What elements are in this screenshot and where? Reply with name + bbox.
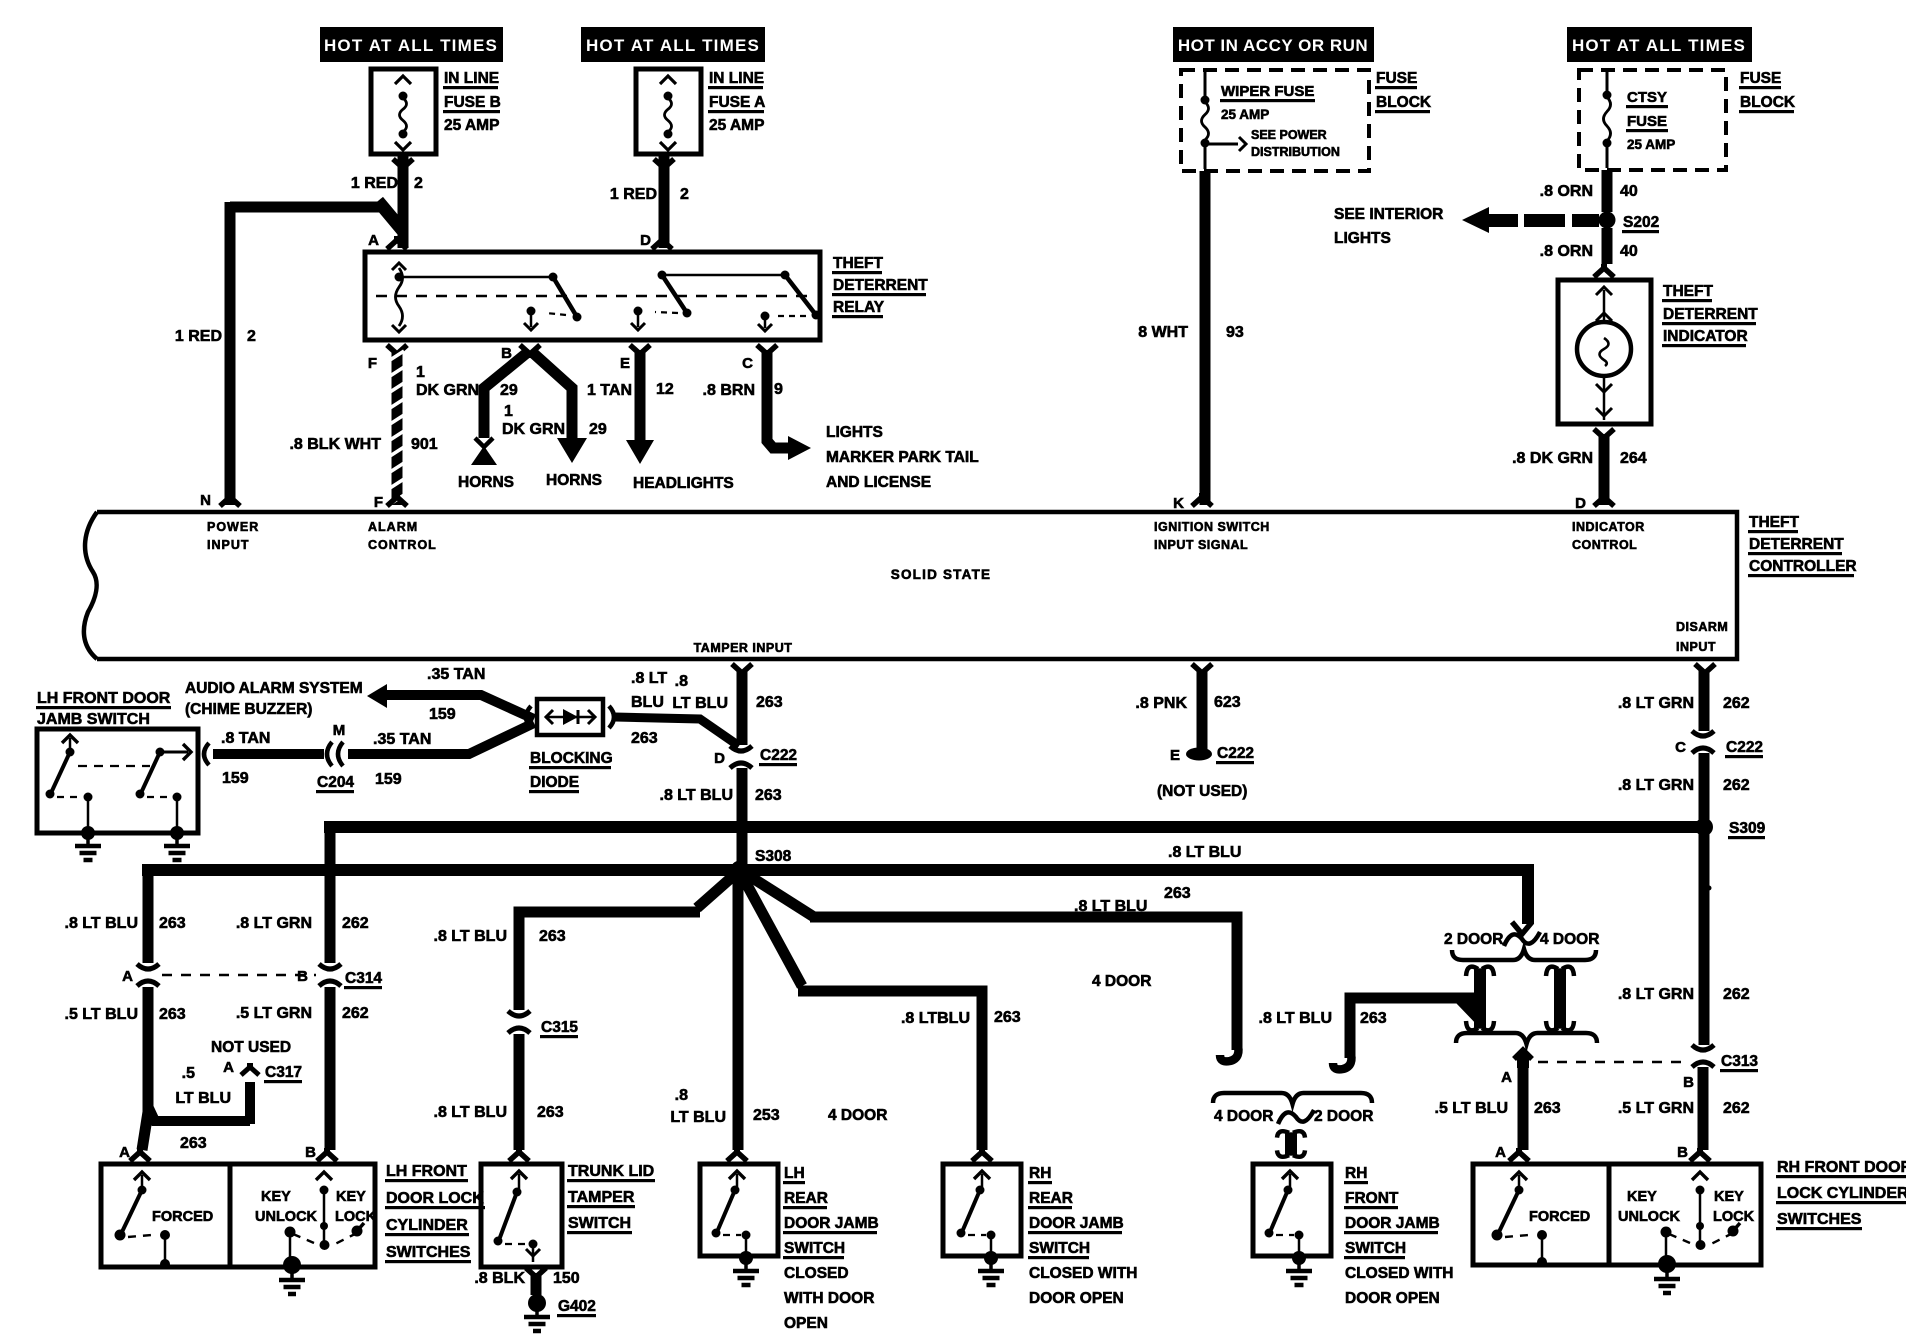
theft deterrent relay box [365,232,928,372]
svg-text:RH FRONT DOOR: RH FRONT DOOR [1777,1159,1906,1176]
svg-text:C222: C222 [1726,739,1763,756]
svg-text:LH FRONT DOOR: LH FRONT DOOR [37,690,171,707]
svg-text:INDICATOR: INDICATOR [1663,328,1748,345]
svg-text:N: N [200,492,211,509]
wire .8 LT BLU 263 (S308 to 4-door right run) [740,870,1238,1061]
svg-text:25 AMP: 25 AMP [1221,107,1269,122]
labels LH front door lock cylinder switches [385,1163,485,1263]
wire .8 LT BLU 263 (left connector to 2-door hook) [1259,998,1480,1069]
svg-text:.8 LT BLU: .8 LT BLU [660,787,733,804]
wire .8 LT GRN (S309 to C314-B column, upper horizontal) [330,827,1704,833]
svg-text:HOT AT ALL TIMES: HOT AT ALL TIMES [586,36,760,55]
svg-text:DOOR JAMB: DOOR JAMB [1345,1215,1440,1232]
4 door / 2 door hook pair (lower assembly) [1213,1093,1373,1157]
svg-text:4 DOOR: 4 DOOR [1092,973,1151,990]
svg-text:29: 29 [589,421,607,438]
wire .8 ORN 40 (CTSY fuse to S202) [1540,170,1638,212]
svg-text:.8 LTBLU: .8 LTBLU [901,1010,970,1027]
svg-text:RELAY: RELAY [833,299,885,316]
svg-text:THEFT: THEFT [833,255,883,272]
svg-text:KEY: KEY [261,1189,291,1205]
wire 1 RED 2 (fuse A to relay pin D) [610,154,689,249]
svg-text:HORNS: HORNS [458,474,514,491]
svg-text:F: F [368,355,377,372]
svg-text:LIGHTS: LIGHTS [1334,230,1391,247]
wire .8 LT GRN 262 (S309 to connector C313) [1618,832,1759,1072]
svg-text:DOOR OPEN: DOOR OPEN [1029,1290,1124,1307]
svg-text:DISTRIBUTION: DISTRIBUTION [1251,145,1340,159]
svg-text:HOT IN ACCY OR RUN: HOT IN ACCY OR RUN [1178,36,1368,55]
svg-text:FUSE: FUSE [1376,70,1417,87]
svg-text:1: 1 [416,364,425,381]
svg-text:REAR: REAR [1029,1190,1073,1207]
svg-text:.8 LT BLU: .8 LT BLU [1074,898,1147,915]
svg-text:M: M [333,722,346,739]
svg-text:C222: C222 [1217,745,1254,762]
svg-text:CONTROL: CONTROL [368,538,437,552]
svg-text:.35 TAN: .35 TAN [373,731,431,748]
wire .8 TAN 159 (jamb switch to C204) [204,730,324,787]
svg-text:253: 253 [753,1107,780,1124]
svg-text:.5: .5 [182,1065,195,1082]
svg-text:2 DOOR: 2 DOOR [1444,931,1503,948]
svg-text:SWITCH: SWITCH [1029,1240,1090,1257]
wire 1 RED 2 (fuse B to relay pin A) [351,154,423,249]
wire .5 LT GRN 262 (C313-B to key lock switch) [1618,1067,1750,1161]
svg-text:623: 623 [1214,694,1241,711]
svg-text:IN LINE: IN LINE [709,70,764,87]
svg-text:263: 263 [755,787,782,804]
svg-text:DK GRN: DK GRN [502,421,565,438]
svg-text:263: 263 [180,1135,207,1152]
wire .8 DK GRN 264 (indicator to controller pin D) [1512,429,1647,506]
svg-text:FUSE: FUSE [1740,70,1781,87]
svg-text:IGNITION SWITCH: IGNITION SWITCH [1154,520,1270,534]
svg-text:C313: C313 [1721,1053,1758,1070]
LH front door lock cylinder forced switch [101,1164,230,1269]
svg-text:.8 BLK WHT: .8 BLK WHT [289,436,381,453]
power feed banner HOT AT ALL TIMES (fuse A) [581,27,765,62]
connector C314 (pins A and B) with dashed pairing line [122,964,382,989]
svg-text:DISARM: DISARM [1676,620,1728,634]
svg-text:S308: S308 [755,848,792,865]
svg-text:2 DOOR: 2 DOOR [1314,1108,1373,1125]
svg-text:D: D [714,750,725,767]
svg-text:A: A [119,1144,130,1161]
svg-text:CLOSED WITH: CLOSED WITH [1029,1265,1138,1282]
svg-text:.8 ORN: .8 ORN [1540,243,1593,260]
svg-text:FUSE B: FUSE B [444,94,501,111]
wire .35 TAN 159 (C204 to blocking diode) [348,723,534,788]
svg-text:TRUNK LID: TRUNK LID [568,1163,654,1180]
connector pin A (below lower brace) with dashed line to C313 [1501,1050,1688,1086]
splice S309 [1695,818,1766,839]
in-line fuse B [371,69,501,154]
svg-text:REAR: REAR [784,1190,828,1207]
svg-text:1 TAN: 1 TAN [587,382,632,399]
svg-text:159: 159 [429,706,456,723]
svg-text:.8: .8 [675,673,688,690]
svg-text:.8 LT GRN: .8 LT GRN [1618,695,1694,712]
svg-text:25 AMP: 25 AMP [709,117,764,134]
svg-text:263: 263 [1164,885,1191,902]
svg-text:HOT AT ALL TIMES: HOT AT ALL TIMES [1572,36,1746,55]
wire .8 PNK 623 (pin B to C222-E, not used) [1135,664,1254,800]
ground (LH front jamb, right) [164,826,190,860]
wire 1 DK GRN 29 to horns (left branch) [416,345,540,491]
svg-text:HEADLIGHTS: HEADLIGHTS [633,475,734,492]
svg-text:LH FRONT: LH FRONT [386,1163,467,1180]
2 door / 4 door in-line connectors (upper assembly) [1444,931,1599,1044]
wire .8 LT BLU 263 (S308 down-left to trunk column) [434,870,740,1010]
svg-text:.8 LT GRN: .8 LT GRN [1618,986,1694,1003]
svg-text:TAMPER: TAMPER [568,1189,635,1206]
svg-text:BLOCK: BLOCK [1740,94,1796,111]
wire .35 TAN 159 (audio alarm to blocking diode) [384,666,534,723]
wire .8 LT GRN 262 (C222-C to splice S309) [1618,753,1750,822]
ground (LH front jamb, left) [75,826,101,860]
svg-text:8 WHT: 8 WHT [1138,324,1188,341]
wire .8 ORN 40 (S202 to indicator) [1540,228,1638,277]
svg-text:.8 LT BLU: .8 LT BLU [434,928,507,945]
splice S202 [1599,212,1660,234]
wire .8 LT BLU 263 (S308 to RH rear door column) [740,872,1151,1161]
svg-text:WIPER FUSE: WIPER FUSE [1221,83,1314,100]
svg-text:SWITCHES: SWITCHES [1777,1211,1862,1228]
svg-text:SWITCH: SWITCH [1345,1240,1406,1257]
svg-text:DOOR OPEN: DOOR OPEN [1345,1290,1440,1307]
svg-text:UNLOCK: UNLOCK [1618,1209,1681,1225]
svg-text:.8 DK GRN: .8 DK GRN [1512,450,1593,467]
svg-text:25 AMP: 25 AMP [1627,137,1675,152]
svg-text:B: B [1677,1144,1688,1161]
svg-text:40: 40 [1620,183,1638,200]
svg-text:THEFT: THEFT [1749,514,1799,531]
svg-text:E: E [620,355,630,372]
svg-text:29: 29 [500,382,518,399]
wire .8/.5 LT GRN 262 (C314-B column) [236,833,369,1161]
svg-text:LOCK CYLINDER: LOCK CYLINDER [1777,1185,1906,1202]
svg-text:SWITCH: SWITCH [784,1240,845,1257]
svg-text:SWITCH: SWITCH [568,1215,631,1232]
svg-text:4 DOOR: 4 DOOR [1540,931,1599,948]
power feed banner HOT AT ALL TIMES (CTSY) [1567,27,1752,62]
svg-text:CLOSED WITH: CLOSED WITH [1345,1265,1454,1282]
ground (RH front jamb) [1286,1251,1312,1285]
connector C204 [316,722,354,793]
svg-text:262: 262 [1723,777,1750,794]
svg-text:LT BLU: LT BLU [670,1109,726,1126]
svg-text:2: 2 [414,175,423,192]
svg-text:CLOSED: CLOSED [784,1265,849,1282]
svg-text:.8 ORN: .8 ORN [1540,183,1593,200]
svg-text:INPUT: INPUT [1676,640,1716,654]
svg-text:IN LINE: IN LINE [444,70,499,87]
svg-text:150: 150 [553,1270,580,1287]
svg-text:A: A [223,1059,234,1076]
svg-text:RH: RH [1345,1165,1367,1182]
svg-text:CONTROLLER: CONTROLLER [1749,558,1857,575]
svg-text:SWITCHES: SWITCHES [386,1244,471,1261]
ground G402 [524,1294,596,1331]
RH front door key unlock / key lock switch [1609,1164,1761,1265]
svg-text:SOLID STATE: SOLID STATE [891,567,991,582]
svg-text:DOOR JAMB: DOOR JAMB [784,1215,879,1232]
wire 8 WHT 93 (wiper fuse to controller pin K) [1138,171,1244,506]
relay coil (pin A to pin F) [392,263,406,332]
svg-text:.8 BRN: .8 BRN [703,382,755,399]
wire .8 LT BLU 253 (S308 down to LH rear door switch) [670,874,887,1161]
svg-text:263: 263 [1360,1010,1387,1027]
svg-text:LH: LH [784,1165,805,1182]
svg-text:.35 TAN: .35 TAN [427,666,485,683]
wire 1 DK GRN 29 to horns (right branch) [502,352,607,489]
svg-text:262: 262 [1723,1100,1750,1117]
ground (LH rear jamb) [733,1251,759,1285]
wire .5 LT BLU 263 (A to RH forced switch) [1435,1066,1561,1161]
svg-text:TAMPER INPUT: TAMPER INPUT [694,641,793,655]
svg-text:LOCK: LOCK [1713,1209,1755,1225]
svg-text:G402: G402 [558,1298,596,1315]
svg-text:ALARM: ALARM [368,520,418,534]
ground (RH rear jamb) [978,1251,1004,1285]
svg-text:.8 LT BLU: .8 LT BLU [1168,844,1241,861]
svg-text:A: A [122,968,133,985]
relay switch blade D-E [631,271,692,331]
svg-text:FORCED: FORCED [1529,1209,1590,1225]
svg-text:.8 BLK: .8 BLK [474,1270,525,1287]
svg-text:S202: S202 [1623,214,1659,231]
svg-text:(NOT USED): (NOT USED) [1157,783,1247,800]
audio alarm system arrow [185,680,387,718]
trunk lid tamper switch [481,1163,655,1267]
relay contact dashed actuate line [376,295,810,298]
svg-text:LT BLU: LT BLU [175,1090,231,1107]
svg-text:4 DOOR: 4 DOOR [828,1107,887,1124]
svg-text:NOT USED: NOT USED [211,1039,291,1056]
svg-text:262: 262 [342,915,369,932]
svg-text:CYLINDER: CYLINDER [386,1217,468,1234]
svg-text:D: D [640,232,651,249]
svg-text:C: C [1675,739,1686,756]
svg-text:263: 263 [159,915,186,932]
wire .8 LT BLU 263 (blocking diode to tamper input wire) [615,670,739,747]
svg-text:K: K [1173,495,1184,512]
svg-text:262: 262 [1723,695,1750,712]
svg-text:OPEN: OPEN [784,1315,828,1332]
svg-text:JAMB SWITCH: JAMB SWITCH [37,711,150,728]
wire branch to connector C317 (not used) [148,1039,302,1152]
svg-text:264: 264 [1620,450,1647,467]
svg-text:INPUT: INPUT [207,538,250,552]
svg-text:MARKER PARK TAIL: MARKER PARK TAIL [826,449,979,466]
svg-text:FUSE: FUSE [1627,113,1667,130]
svg-text:C317: C317 [265,1064,302,1081]
svg-text:BLOCKING: BLOCKING [530,750,613,767]
svg-text:FUSE A: FUSE A [709,94,765,111]
ground (LH lock cylinder) [279,1256,305,1294]
svg-text:B: B [297,968,308,985]
svg-text:LT BLU: LT BLU [672,695,728,712]
wire .5 LT BLU (down to LH forced switch pin A) [119,1112,150,1161]
svg-text:159: 159 [375,771,402,788]
svg-text:9: 9 [774,381,783,398]
svg-text:263: 263 [756,694,783,711]
power feed banner HOT IN ACCY OR RUN [1173,27,1374,62]
svg-text:.8 LT GRN: .8 LT GRN [1618,777,1694,794]
power feed banner HOT AT ALL TIMES (fuse B) [320,27,503,62]
svg-text:.5 LT GRN: .5 LT GRN [236,1005,312,1022]
svg-text:.8 LT BLU: .8 LT BLU [1259,1010,1332,1027]
svg-text:RH: RH [1029,1165,1051,1182]
svg-text:4 DOOR: 4 DOOR [1214,1108,1273,1125]
svg-text:THEFT: THEFT [1663,283,1713,300]
svg-text:901: 901 [411,436,438,453]
svg-text:93: 93 [1226,324,1244,341]
wire 1 TAN 12 to headlights [587,345,734,492]
svg-text:INPUT SIGNAL: INPUT SIGNAL [1154,538,1248,552]
svg-text:A: A [368,232,379,249]
svg-text:D: D [1575,495,1586,512]
svg-text:.5 LT BLU: .5 LT BLU [1435,1100,1508,1117]
svg-text:263: 263 [631,730,658,747]
svg-text:LIGHTS: LIGHTS [826,424,883,441]
svg-text:(CHIME BUZZER): (CHIME BUZZER) [185,701,312,718]
in-line fuse A [636,69,765,154]
wire 1 RED 2 (branch to controller pin N) [175,201,403,506]
blocking diode [526,699,614,793]
LH front door jamb switch [36,690,198,833]
svg-text:B: B [305,1144,316,1161]
svg-text:1 RED: 1 RED [610,186,657,203]
relay switch blade D-C [662,271,821,332]
svg-text:HOT AT ALL TIMES: HOT AT ALL TIMES [324,36,498,55]
RH rear door jamb switch [943,1164,1138,1307]
svg-text:CTSY: CTSY [1627,89,1667,106]
svg-text:263: 263 [539,928,566,945]
svg-text:2: 2 [680,186,689,203]
theft deterrent controller box (solid state) [84,492,1857,659]
see interior lights arrow [1334,206,1599,247]
svg-text:2: 2 [247,328,256,345]
wire .8 LT BLU 263 (C222-D to splice S308) [660,768,782,864]
svg-text:E: E [1170,747,1180,764]
labels RH front door lock cylinder switches [1776,1159,1906,1230]
svg-text:1 RED: 1 RED [351,175,398,192]
wire .8 LT BLU 263 (C315 to trunk lid tamper switch) [434,1034,564,1161]
svg-text:A: A [1495,1144,1506,1161]
svg-text:INDICATOR: INDICATOR [1572,520,1645,534]
svg-text:A: A [1501,1069,1512,1086]
svg-text:159: 159 [222,770,249,787]
svg-text:263: 263 [159,1006,186,1023]
splice S308 [731,848,792,880]
svg-text:C: C [742,355,753,372]
svg-text:.8 LT GRN: .8 LT GRN [236,915,312,932]
svg-text:DETERRENT: DETERRENT [833,277,928,294]
svg-text:C315: C315 [541,1019,578,1036]
svg-text:DOOR JAMB: DOOR JAMB [1029,1215,1124,1232]
svg-text:.8 LT: .8 LT [631,670,667,687]
svg-text:WITH DOOR: WITH DOOR [784,1290,874,1307]
wire .8 LT BLU 263 (left column above C314-A) [65,874,186,963]
LH rear door jamb switch [700,1164,879,1332]
svg-text:KEY: KEY [336,1189,366,1205]
svg-text:.5 LT BLU: .5 LT BLU [65,1006,138,1023]
svg-text:.8: .8 [675,1087,688,1104]
svg-text:263: 263 [537,1104,564,1121]
svg-text:DETERRENT: DETERRENT [1663,306,1758,323]
svg-text:DOOR LOCK: DOOR LOCK [386,1190,484,1207]
svg-text:SEE POWER: SEE POWER [1251,128,1327,142]
svg-text:.8 LT BLU: .8 LT BLU [65,915,138,932]
wire .8 LT BLU (S308 horizontal to 2door/4door drop) [148,844,1532,934]
wire .5 LT BLU 263 (C314-A down to forced switch) [65,987,186,1112]
svg-text:CONTROL: CONTROL [1572,538,1637,552]
svg-text:AND LICENSE: AND LICENSE [826,474,931,491]
wire .8 LT GRN 262 (pin H to C222-C) [1618,664,1763,758]
theft deterrent indicator (lamp) [1558,280,1758,424]
svg-text:HORNS: HORNS [546,472,602,489]
svg-text:LOCK: LOCK [335,1209,377,1225]
svg-text:12: 12 [656,381,674,398]
svg-text:BLOCK: BLOCK [1376,94,1432,111]
svg-text:.8 TAN: .8 TAN [221,730,270,747]
connector C315 [508,1011,578,1038]
svg-text:FORCED: FORCED [152,1209,213,1225]
svg-text:C222: C222 [760,747,797,764]
svg-text:.8 PNK: .8 PNK [1135,695,1187,712]
svg-text:KEY: KEY [1714,1189,1744,1205]
CTSY fuse (fuse block) [1579,70,1796,170]
svg-text:25 AMP: 25 AMP [444,117,499,134]
RH front door jamb switch [1253,1164,1454,1307]
svg-text:F: F [374,494,383,511]
svg-text:262: 262 [342,1005,369,1022]
svg-text:BLU: BLU [631,694,664,711]
svg-text:DIODE: DIODE [530,774,579,791]
svg-text:40: 40 [1620,243,1638,260]
svg-text:POWER: POWER [207,520,259,534]
svg-text:C314: C314 [345,970,382,987]
wire .8 BLK 150 (trunk switch to ground G402) [474,1268,579,1295]
svg-text:263: 263 [1534,1100,1561,1117]
svg-text:KEY: KEY [1627,1189,1657,1205]
relay switch blade A-B [399,273,582,331]
RH front door lock cylinder forced switch [1473,1164,1609,1267]
svg-text:FRONT: FRONT [1345,1190,1399,1207]
svg-text:1: 1 [504,403,513,420]
svg-text:AUDIO ALARM SYSTEM: AUDIO ALARM SYSTEM [185,680,363,697]
svg-text:262: 262 [1723,986,1750,1003]
ground (RH lock cylinder) [1654,1255,1680,1293]
svg-text:DK GRN: DK GRN [416,382,479,399]
svg-text:263: 263 [994,1009,1021,1026]
wire .8 BLK WHT 901 (relay F to controller alarm control) [289,345,437,506]
wire .8 LT BLU 263 (tamper input to C222-D) [672,664,797,768]
svg-text:1 RED: 1 RED [175,328,222,345]
wiper fuse (fuse block) [1181,70,1432,171]
svg-text:SEE INTERIOR: SEE INTERIOR [1334,206,1443,223]
svg-text:S309: S309 [1729,820,1766,837]
svg-text:B: B [1683,1074,1694,1091]
svg-text:C204: C204 [317,774,354,791]
LH front door key unlock / key lock switch [230,1164,377,1267]
svg-text:.5 LT GRN: .5 LT GRN [1618,1100,1694,1117]
svg-text:DETERRENT: DETERRENT [1749,536,1844,553]
svg-text:.8 LT BLU: .8 LT BLU [434,1104,507,1121]
wire .8 BRN 9 to exterior lights [703,345,979,491]
